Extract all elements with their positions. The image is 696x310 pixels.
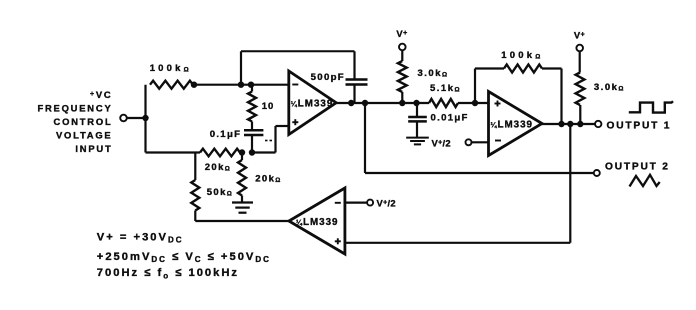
wire 0.01uF stem bbox=[416, 103, 418, 117]
resistor 100k input bbox=[150, 81, 193, 89]
svg-text:OUTPUT 2: OUTPUT 2 bbox=[605, 161, 670, 172]
wire bottom rail left bbox=[146, 151, 201, 153]
svg-text:¼LM339: ¼LM339 bbox=[296, 217, 339, 228]
node cap bottom bbox=[249, 149, 255, 155]
label OUTPUT 2 bbox=[605, 161, 670, 172]
wire inverting input rail bbox=[193, 84, 289, 86]
label 20k series bbox=[205, 162, 232, 173]
node out1 a bbox=[558, 121, 564, 127]
U3 minus marker bbox=[335, 202, 341, 204]
node feedback top-left bbox=[238, 82, 244, 88]
svg-text:0.01μF: 0.01μF bbox=[431, 113, 469, 124]
U3 plus marker bbox=[335, 238, 341, 244]
wire 20k to ground bbox=[241, 196, 243, 203]
wire U3 minus stub bbox=[345, 202, 367, 204]
U1 minus marker bbox=[292, 84, 298, 86]
resistor 10 bbox=[248, 92, 256, 122]
wire 5.1k to U2 bbox=[458, 102, 489, 104]
label U2 1/4LM339 bbox=[491, 119, 534, 130]
caption line 2 bbox=[97, 251, 271, 264]
label V+ first bbox=[396, 28, 407, 39]
wire 3.0k bottom stem bbox=[401, 92, 403, 103]
wire noninv riser bbox=[274, 126, 276, 153]
wire U3 plus drop bbox=[569, 124, 571, 243]
U1 plus marker bbox=[292, 119, 298, 125]
capacitor 0.1uF bbox=[244, 130, 263, 135]
input label +VC FREQUENCY CONTROL VOLTAGE INPUT bbox=[37, 89, 112, 154]
wire feedback riser U2 bbox=[474, 69, 476, 104]
wire U3 output run bbox=[195, 220, 289, 222]
node 3.0k output bbox=[399, 100, 405, 106]
svg-text:¼LM339: ¼LM339 bbox=[491, 119, 534, 130]
caption line 1 bbox=[97, 232, 184, 245]
label OUTPUT 1 bbox=[607, 120, 672, 131]
node 100k right bbox=[191, 82, 197, 88]
wire 20k shunt stem bbox=[241, 153, 243, 161]
label V+/2 second bbox=[377, 198, 396, 209]
resistor 3.0k second bbox=[576, 73, 585, 106]
wire feedback top bbox=[241, 50, 355, 52]
wire 10ohm top stem bbox=[251, 85, 253, 92]
wire bottom rail right bbox=[251, 151, 276, 153]
wire input vertical riser bbox=[144, 85, 146, 153]
ground under 0.01uF bbox=[406, 138, 429, 145]
svg-text:INPUT: INPUT bbox=[75, 143, 112, 154]
wire V+ stem bbox=[401, 50, 403, 61]
label 20k shunt bbox=[255, 174, 282, 185]
node input junction bbox=[142, 115, 148, 121]
resistor 20k shunt bbox=[238, 160, 246, 196]
svg-text:CONTROL: CONTROL bbox=[54, 116, 113, 127]
svg-text:FREQUENCY: FREQUENCY bbox=[37, 103, 112, 114]
wire feedback riser bbox=[240, 51, 242, 84]
label 3.0k first bbox=[418, 68, 449, 79]
wire noninv stub bbox=[276, 125, 289, 127]
node 0.01uF top bbox=[413, 100, 419, 106]
capacitor 500pF bbox=[346, 80, 368, 85]
svg-text:+250mVDC ≤ VC ≤ +50VDC: +250mVDC ≤ VC ≤ +50VDC bbox=[97, 251, 271, 264]
wire 10ohm to cap bbox=[251, 122, 253, 131]
label 0.01uF bbox=[431, 113, 469, 124]
wire 3.0k2 bottom stem bbox=[579, 105, 581, 124]
wire feedback drop U2 bbox=[560, 69, 562, 125]
wire 0.01uF to ground bbox=[416, 121, 418, 137]
resistor 5.1k bbox=[429, 99, 458, 107]
node 20k shunt top bbox=[239, 149, 245, 155]
wire V+2 stem bbox=[579, 51, 581, 72]
label 5.1k bbox=[430, 83, 461, 94]
terminal V+ second bbox=[576, 45, 583, 52]
wire out2 drop bbox=[364, 103, 366, 173]
node U1 out a bbox=[348, 100, 354, 106]
wire feedback top right U2 bbox=[542, 67, 562, 69]
node 10ohm top bbox=[248, 82, 254, 88]
label U3 1/4LM339 bbox=[296, 217, 339, 228]
ground under 20k bbox=[232, 203, 253, 213]
wire input terminal to node bbox=[127, 117, 146, 119]
caption line 3 bbox=[97, 267, 239, 280]
svg-text:500pF: 500pF bbox=[311, 72, 345, 83]
wire 50k top stem bbox=[194, 153, 196, 181]
U2 minus marker bbox=[495, 140, 501, 142]
wire 500pF top stem bbox=[353, 51, 355, 79]
op-amp U3 1/4 LM339 bbox=[289, 188, 345, 254]
node out1 b bbox=[567, 121, 573, 127]
terminal V+/2 second bbox=[367, 200, 373, 206]
terminal OUTPUT 2 bbox=[594, 170, 600, 176]
op-amp U2 1/4 LM339 bbox=[489, 92, 543, 156]
label 50k bbox=[207, 187, 234, 198]
resistor 100k feedback bbox=[504, 65, 542, 73]
wire 500pF bottom stem bbox=[353, 85, 355, 104]
capacitor 0.01uF bbox=[408, 117, 427, 121]
input terminal bbox=[120, 115, 127, 122]
artifact dashes bbox=[265, 140, 272, 142]
label 100k feedback bbox=[501, 50, 543, 61]
svg-text:0.1μF: 0.1μF bbox=[210, 129, 242, 140]
svg-text:OUTPUT 1: OUTPUT 1 bbox=[607, 120, 672, 131]
label 10 bbox=[262, 101, 275, 112]
wire U1 output run bbox=[336, 102, 429, 104]
terminal V+ first bbox=[399, 44, 406, 51]
op-amp U1 1/4 LM339 bbox=[289, 71, 336, 135]
resistor 50k bbox=[191, 180, 199, 211]
label 500pF bbox=[311, 72, 345, 83]
U2 plus marker bbox=[495, 101, 501, 107]
resistor 20k series bbox=[200, 149, 240, 157]
wire U2 output bbox=[542, 123, 595, 125]
terminal OUTPUT 1 bbox=[595, 121, 601, 127]
resistor 3.0k first bbox=[398, 61, 407, 92]
label V+/2 first bbox=[432, 137, 451, 148]
svg-text:10: 10 bbox=[262, 101, 275, 112]
label 0.1uF bbox=[210, 129, 242, 140]
symbol triangle wave bbox=[630, 175, 660, 187]
wire out2 run bbox=[365, 172, 594, 174]
symbol square wave bbox=[629, 101, 673, 112]
svg-text:VOLTAGE: VOLTAGE bbox=[56, 129, 113, 140]
label V+ second bbox=[574, 30, 585, 41]
wire U3 plus run bbox=[345, 242, 570, 244]
node out1 c bbox=[577, 121, 583, 127]
node U1 out b bbox=[362, 100, 368, 106]
wire feedback top left U2 bbox=[475, 67, 504, 69]
label 3.0k second bbox=[594, 82, 625, 93]
label 100k bbox=[150, 63, 192, 74]
wire V+/2 to U2 bbox=[472, 141, 489, 143]
node U2 plus input bbox=[472, 100, 478, 106]
terminal V+/2 first bbox=[466, 139, 472, 145]
wire 50k bottom stem bbox=[194, 211, 196, 222]
svg-text:¼LM339: ¼LM339 bbox=[291, 99, 334, 110]
label U1 1/4LM339 bbox=[291, 99, 334, 110]
wire cap bottom stem bbox=[251, 135, 253, 153]
